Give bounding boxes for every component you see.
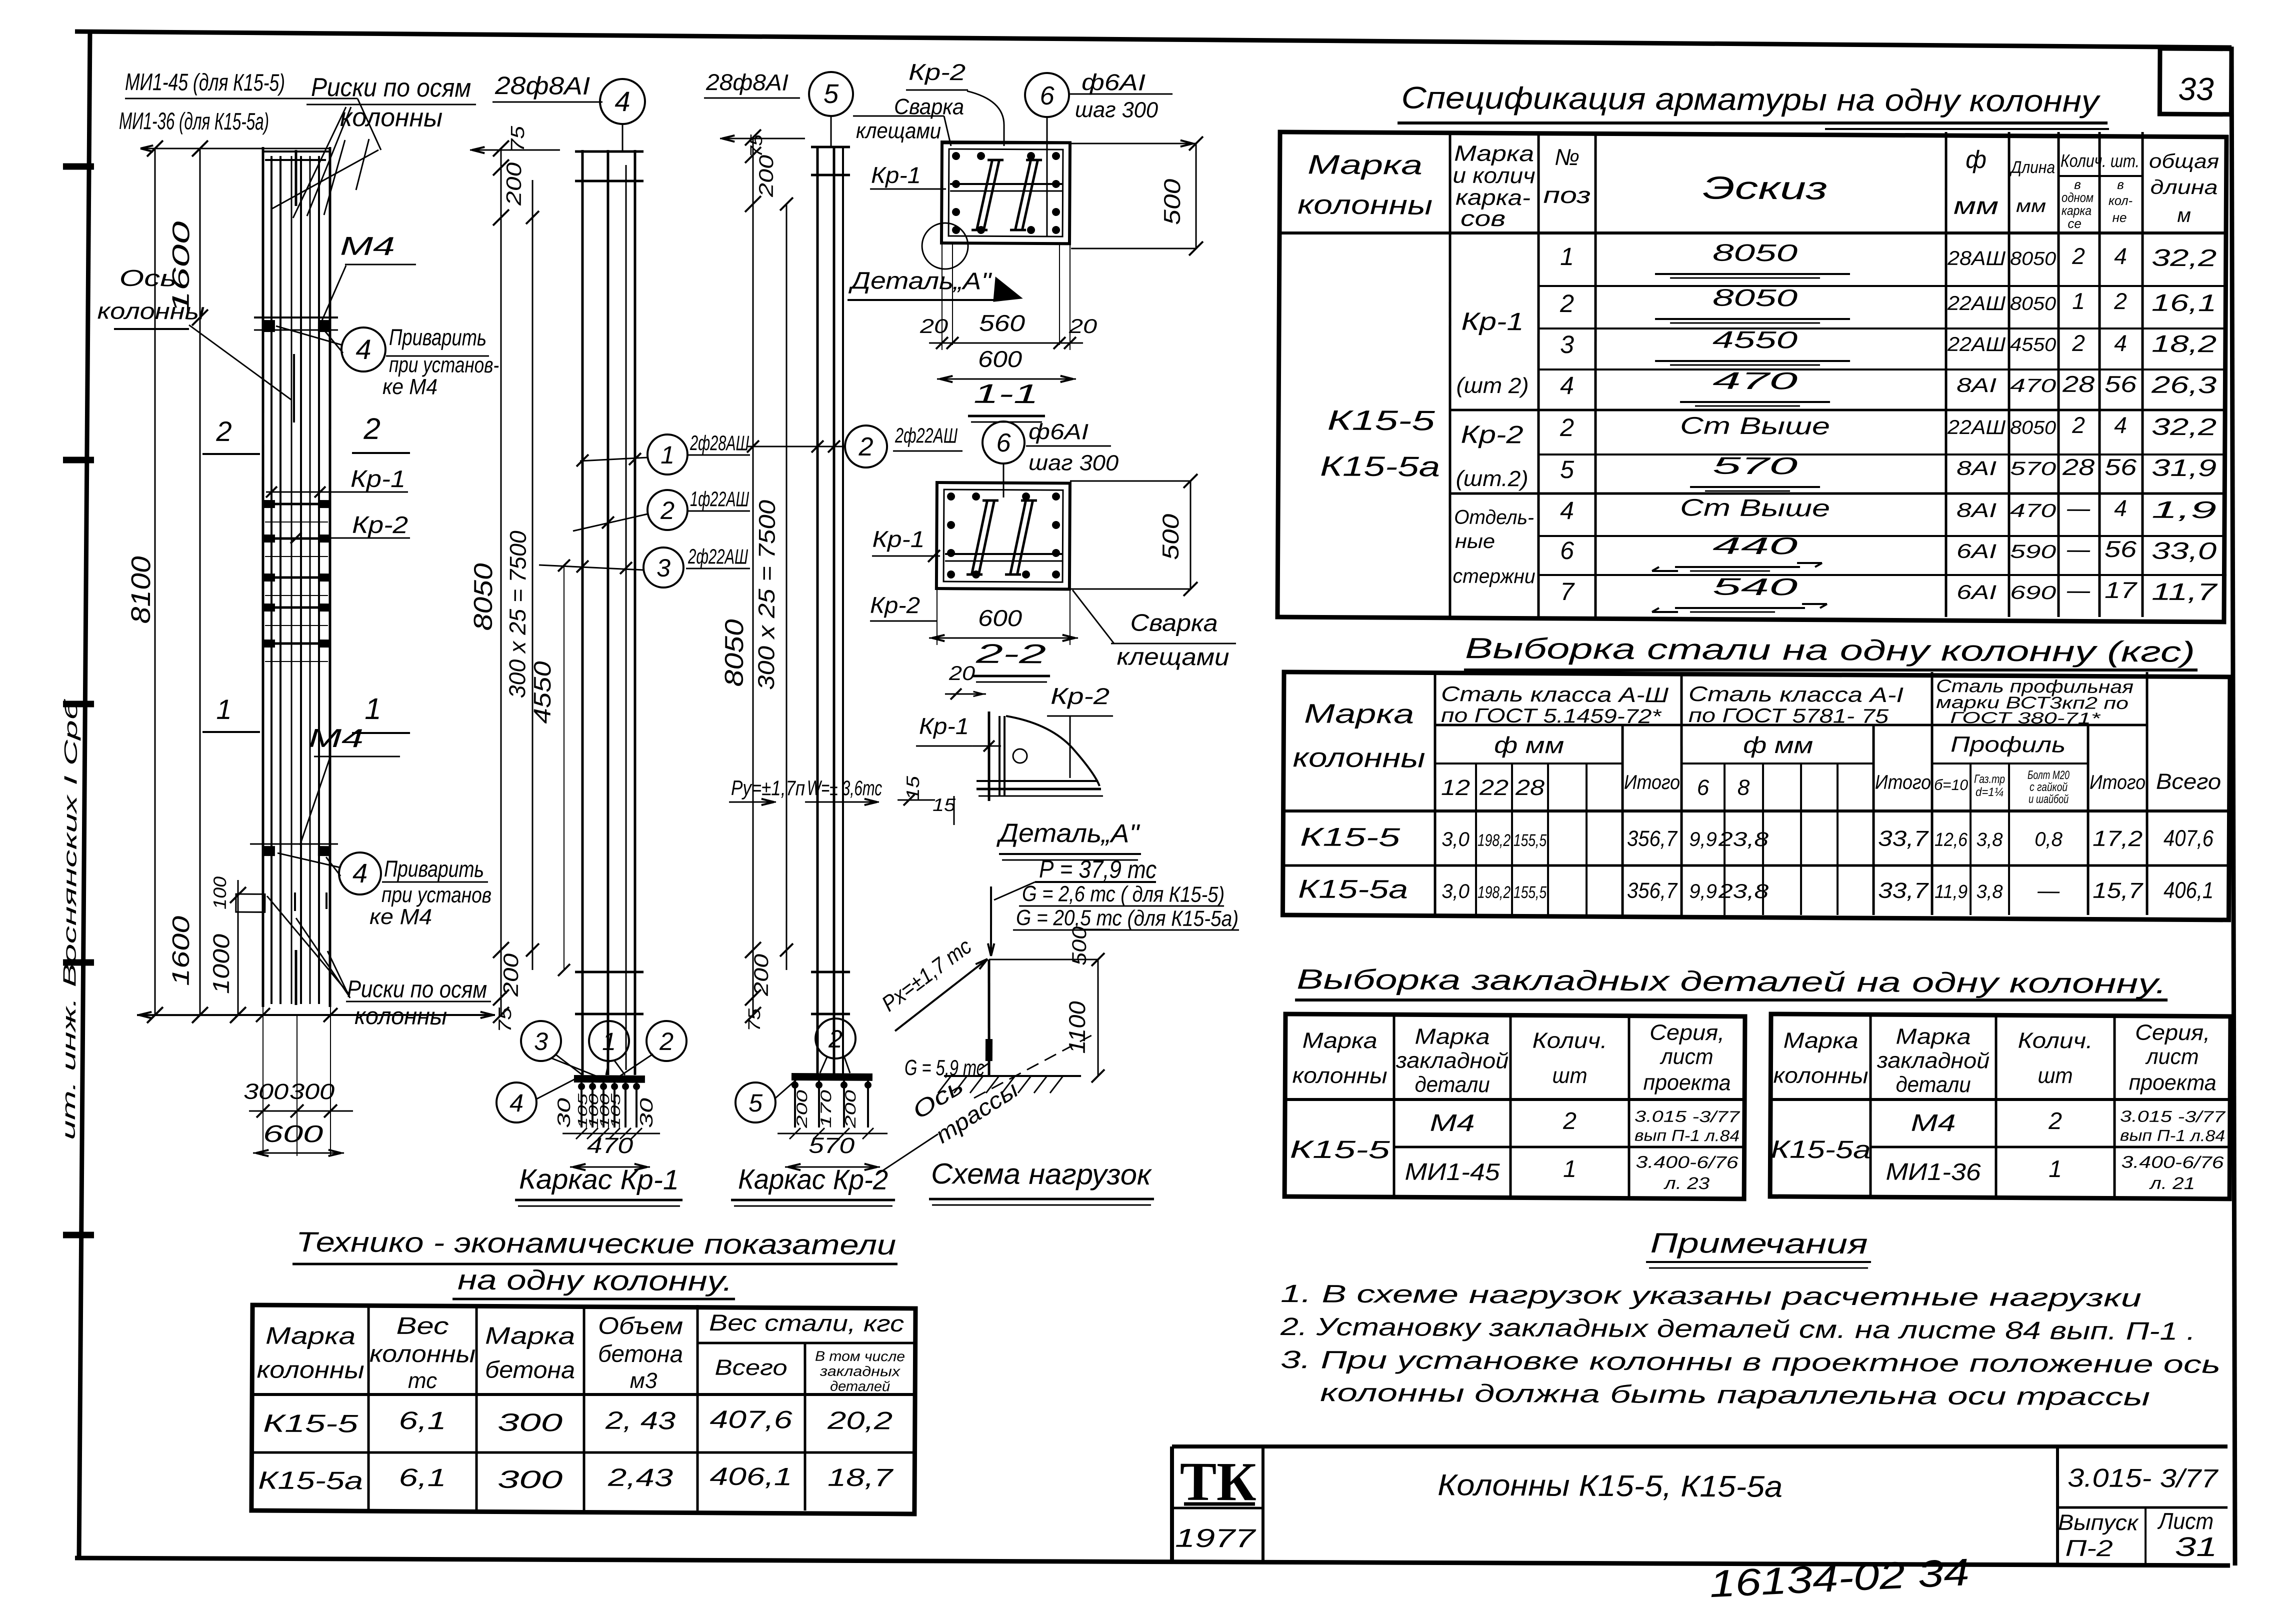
svg-text:356,7: 356,7: [1627, 878, 1678, 903]
svg-text:2: 2: [1559, 413, 1574, 441]
svg-text:300: 300: [243, 1079, 289, 1104]
svg-text:общая: общая: [2149, 150, 2219, 173]
svg-text:мм: мм: [1953, 193, 1998, 219]
svg-text:Выборка стали на одну коло: Выборка стали на одну колонну (кгс): [1465, 632, 2195, 668]
svg-text:1ф22АШ: 1ф22АШ: [690, 487, 749, 511]
svg-text:1: 1: [602, 1027, 616, 1055]
svg-text:закладных: закладных: [819, 1363, 900, 1379]
Kr-2 bottom rungs: [811, 970, 850, 973]
svg-text:Сталь класса А-I: Сталь класса А-I: [1688, 682, 1904, 706]
Kr-1 bottom callout circles: [521, 1021, 561, 1061]
steel table grid: [1282, 672, 2230, 920]
svg-text:П-2: П-2: [2065, 1535, 2113, 1561]
dim line 100: [237, 880, 239, 1015]
svg-text:18,2: 18,2: [2151, 331, 2216, 358]
load P arrow: [990, 886, 991, 956]
svg-text:4: 4: [2114, 243, 2127, 269]
svg-text:28: 28: [2062, 454, 2095, 480]
svg-text:по ГОСТ 5.1459-72*: по ГОСТ 5.1459-72*: [1441, 704, 1662, 727]
dim line 8100: [150, 148, 159, 1015]
callout circle 4 top Kr-1: [600, 79, 645, 124]
svg-text:406,1: 406,1: [709, 1462, 792, 1491]
svg-text:деталей: деталей: [830, 1378, 890, 1394]
svg-text:Спецификация арматуры на одну: Спецификация арматуры на одну колонну: [1401, 80, 2101, 118]
svg-text:клещами: клещами: [1116, 643, 1229, 670]
embed table K15-5: [1284, 1014, 1745, 1199]
svg-text:16134-02 34: 16134-02 34: [1708, 1551, 1970, 1605]
svg-text:2: 2: [2071, 412, 2085, 438]
svg-text:32,2: 32,2: [2151, 414, 2216, 441]
svg-text:2: 2: [215, 415, 231, 447]
svg-text:Примечания: Примечания: [1650, 1227, 1867, 1259]
svg-text:Выборка закладных деталей н: Выборка закладных деталей на одну колонн…: [1296, 963, 2166, 999]
svg-text:К15-5а: К15-5а: [1770, 1135, 1870, 1163]
svg-text:Колич.: Колич.: [2018, 1028, 2093, 1053]
svg-text:—: —: [2066, 536, 2090, 562]
svg-text:8АI: 8АI: [1956, 374, 1996, 396]
svg-text:Итого: Итого: [1624, 771, 1680, 794]
svg-text:в: в: [2117, 177, 2124, 192]
svg-text:4: 4: [509, 1089, 523, 1117]
svg-text:колонны: колонны: [1297, 189, 1432, 220]
svg-text:4: 4: [355, 333, 371, 365]
svg-text:Сталь класса А-Ш: Сталь класса А-Ш: [1441, 682, 1669, 706]
svg-text:Приварить: Приварить: [384, 855, 484, 882]
svg-text:8050: 8050: [1712, 285, 1798, 312]
dims 20 560 20 below 1-1: [941, 243, 942, 350]
svg-text:(шт 2): (шт 2): [1456, 373, 1528, 398]
svg-text:1: 1: [2072, 288, 2085, 314]
svg-text:2: 2: [2048, 1108, 2062, 1134]
svg-text:31: 31: [2175, 1532, 2217, 1562]
svg-text:470: 470: [2010, 375, 2056, 396]
svg-text:Марка: Марка: [265, 1323, 355, 1350]
column base mark: [985, 1039, 992, 1061]
svg-text:22АШ: 22АШ: [1947, 416, 2005, 439]
svg-text:Колич. шт.: Колич. шт.: [2060, 150, 2139, 171]
svg-text:690: 690: [2010, 582, 2056, 603]
svg-text:406,1: 406,1: [2163, 877, 2213, 903]
svg-text:440: 440: [1712, 533, 1798, 560]
svg-text:500: 500: [1157, 513, 1183, 560]
svg-text:200: 200: [755, 155, 777, 197]
svg-text:8АI: 8АI: [1956, 499, 1996, 521]
svg-text:1: 1: [1563, 1156, 1576, 1182]
dim 500 right of 2-2: [1070, 480, 1190, 482]
svg-text:МИ1-45: МИ1-45: [1404, 1159, 1500, 1186]
svg-text:11,9: 11,9: [1934, 881, 1967, 902]
svg-text:колонны: колонны: [340, 103, 442, 132]
svg-text:ке М4: ке М4: [382, 374, 437, 399]
svg-text:560: 560: [979, 310, 1025, 336]
svg-text:6АI: 6АI: [1956, 540, 1996, 562]
svg-text:1600: 1600: [168, 915, 195, 986]
svg-text:Лист: Лист: [2157, 1508, 2213, 1534]
svg-text:Отдель-: Отдель-: [1454, 506, 1534, 529]
svg-text:G = 20,5 тс (для К15-5а): G = 20,5 тс (для К15-5а): [1016, 905, 1238, 931]
svg-text:1100: 1100: [1064, 1001, 1090, 1054]
Kr-1 top dim tail: [470, 149, 560, 150]
embedded plate M4 upper: [254, 317, 338, 318]
svg-text:3: 3: [656, 554, 670, 582]
svg-text:Каркас Кр-1: Каркас Кр-1: [519, 1163, 679, 1195]
svg-text:л. 21: л. 21: [2149, 1174, 2195, 1193]
section 1-1 ties: [976, 159, 992, 231]
svg-text:155,5: 155,5: [1513, 883, 1546, 902]
svg-text:Кр-2: Кр-2: [1460, 420, 1523, 449]
svg-text:Кр-1: Кр-1: [350, 466, 405, 493]
scheme frame: [989, 959, 1098, 960]
svg-text:407,6: 407,6: [2163, 825, 2214, 851]
svg-text:2: 2: [1559, 289, 1574, 317]
svg-text:1. В схеме нагрузок указа: 1. В схеме нагрузок указаны расчетные на…: [1280, 1279, 2141, 1312]
svg-text:Кр-1: Кр-1: [919, 713, 969, 739]
column K15-5 elevation outline: [258, 147, 267, 1007]
svg-text:200: 200: [794, 1089, 810, 1128]
svg-text:МИ1-45 (для К15-5): МИ1-45 (для К15-5): [125, 69, 285, 96]
svg-text:470: 470: [2010, 500, 2056, 521]
svg-text:3: 3: [1560, 330, 1574, 358]
svg-text:22АШ: 22АШ: [1947, 292, 2005, 315]
svg-text:3.400-6/76: 3.400-6/76: [2121, 1152, 2224, 1172]
sheet number box 33: [2159, 48, 2231, 114]
svg-text:1: 1: [2048, 1156, 2062, 1182]
column axis mark top: [295, 150, 296, 206]
Kr-2 cage bars: [812, 146, 822, 1074]
svg-text:клещами: клещами: [856, 118, 941, 143]
svg-text:закладной: закладной: [1395, 1048, 1508, 1073]
svg-text:К15-5: К15-5: [263, 1409, 358, 1438]
svg-text:356,7: 356,7: [1627, 826, 1678, 851]
svg-text:Марка: Марка: [485, 1323, 575, 1350]
svg-text:не: не: [2112, 210, 2127, 225]
svg-text:Деталь„А": Деталь„А": [848, 267, 992, 295]
Kr-2 dim line 8050: [748, 137, 757, 1015]
svg-text:Сварка: Сварка: [1130, 610, 1217, 637]
svg-text:75: 75: [745, 1008, 764, 1031]
svg-text:се: се: [2067, 216, 2081, 231]
svg-text:0,8: 0,8: [2034, 828, 2063, 850]
svg-text:Схема нагрузок: Схема нагрузок: [931, 1157, 1152, 1191]
axis dash line: [974, 1032, 1096, 1099]
svg-text:1: 1: [1560, 242, 1574, 270]
svg-text:М4: М4: [308, 724, 363, 753]
svg-text:8050: 8050: [2010, 417, 2056, 438]
svg-text:3. При установке колонны: 3. При установке колонны в проектное пол…: [1280, 1345, 2220, 1378]
detail A base plates: [976, 780, 1098, 782]
svg-text:540: 540: [1712, 574, 1798, 601]
svg-text:56: 56: [2104, 371, 2137, 397]
svg-text:2: 2: [659, 1027, 673, 1055]
callout circle 6 of 2-2: [982, 421, 1024, 463]
svg-text:колонны: колонны: [354, 1003, 447, 1030]
svg-text:3.400-6/76: 3.400-6/76: [1635, 1152, 1738, 1172]
svg-text:d=1¼: d=1¼: [1975, 785, 2003, 799]
svg-text:8050: 8050: [1712, 240, 1798, 267]
svg-text:М4: М4: [340, 232, 395, 261]
svg-text:33: 33: [2178, 71, 2214, 107]
svg-text:и колич: и колич: [1452, 163, 1535, 188]
svg-text:Колич.: Колич.: [1532, 1028, 1607, 1053]
svg-text:Профиль: Профиль: [1950, 732, 2065, 757]
svg-text:шаг 300: шаг 300: [1028, 450, 1119, 475]
svg-text:8100: 8100: [126, 556, 156, 623]
svg-text:2: 2: [660, 496, 674, 524]
svg-text:Ру=±1,7п: Ру=±1,7п: [731, 776, 805, 800]
svg-text:6АI: 6АI: [1956, 581, 1996, 603]
svg-text:8050: 8050: [469, 563, 498, 630]
svg-text:2: 2: [2071, 330, 2085, 356]
svg-text:570: 570: [1712, 453, 1798, 480]
svg-text:—: —: [2066, 577, 2090, 603]
svg-text:3.015- 3/77: 3.015- 3/77: [2067, 1463, 2219, 1493]
svg-text:длина: длина: [2150, 176, 2218, 199]
svg-text:№: №: [1554, 144, 1579, 170]
svg-text:17,2: 17,2: [2092, 826, 2142, 851]
svg-text:8АI: 8АI: [1956, 457, 1996, 479]
svg-text:колонны: колонны: [97, 297, 204, 324]
svg-text:22АШ: 22АШ: [1947, 333, 2005, 356]
svg-text:407,6: 407,6: [709, 1405, 792, 1434]
svg-text:590: 590: [2010, 541, 2056, 562]
svg-text:8050: 8050: [2010, 293, 2056, 314]
svg-text:20: 20: [948, 662, 975, 684]
svg-text:Итого: Итого: [1875, 771, 1931, 794]
svg-text:Колонны К15-5, К15-5а: Колонны К15-5, К15-5а: [1437, 1468, 1782, 1503]
ground hatch: [944, 1075, 1081, 1077]
svg-text:по ГОСТ 5781- 75: по ГОСТ 5781- 75: [1688, 704, 1889, 727]
svg-text:18,7: 18,7: [827, 1463, 894, 1492]
svg-text:шаг 300: шаг 300: [1075, 97, 1158, 122]
svg-text:Р = 37,9 тс: Р = 37,9 тс: [1039, 855, 1156, 883]
svg-text:3,0: 3,0: [1441, 828, 1469, 850]
svg-text:8050: 8050: [2010, 248, 2056, 269]
svg-text:Кр-2: Кр-2: [352, 512, 408, 539]
svg-text:ф мм: ф мм: [1743, 732, 1813, 758]
svg-text:6: 6: [996, 428, 1010, 457]
svg-text:Выпуск: Выпуск: [2058, 1510, 2139, 1535]
sheet border frame: [75, 31, 2231, 47]
svg-text:ке М4: ке М4: [369, 904, 432, 929]
embedded plate M4 lower: [250, 843, 338, 844]
svg-text:56: 56: [2104, 454, 2137, 480]
svg-text:6: 6: [1560, 536, 1574, 564]
column axis mark middle: [293, 354, 294, 422]
svg-text:3.015 -3/77: 3.015 -3/77: [2120, 1107, 2226, 1125]
svg-text:28ф8АI: 28ф8АI: [705, 69, 789, 95]
svg-text:105: 105: [608, 1093, 623, 1128]
svg-text:12,6: 12,6: [1934, 829, 1968, 850]
detail A callout circle: [922, 223, 968, 269]
Kr-1 bar callouts 1 2 3: [647, 434, 687, 474]
svg-text:300: 300: [289, 1079, 335, 1104]
svg-text:колонны должна быть пар: колонны должна быть параллельна оси трас…: [1320, 1378, 2150, 1411]
svg-text:33,0: 33,0: [2151, 538, 2217, 565]
svg-text:20: 20: [1068, 315, 1097, 337]
svg-text:при установ-: при установ-: [389, 352, 499, 377]
svg-text:2ф22АШ: 2ф22АШ: [894, 423, 957, 447]
svg-text:К15-5а: К15-5а: [1320, 450, 1440, 482]
svg-text:5: 5: [748, 1089, 762, 1117]
svg-text:К15-5а: К15-5а: [258, 1466, 363, 1494]
Kr-2 bottom assembly: [791, 1073, 872, 1081]
Kr-1 dim line 8050: [496, 148, 505, 1015]
svg-text:2ф28АШ: 2ф28АШ: [689, 431, 749, 455]
svg-text:шт: шт: [2037, 1063, 2072, 1088]
svg-text:20: 20: [919, 315, 948, 337]
svg-text:Марка: Марка: [1895, 1024, 1970, 1049]
svg-text:—: —: [2037, 878, 2060, 903]
svg-text:вып П-1 л.84: вып П-1 л.84: [1634, 1126, 1739, 1144]
Kr-2 bottom callout circles: [815, 1018, 855, 1058]
svg-text:Марка: Марка: [1454, 141, 1534, 166]
base dim line: [137, 1013, 495, 1017]
svg-text:—: —: [2066, 495, 2090, 521]
svg-text:4: 4: [2114, 412, 2127, 438]
Kr-1 bottom rungs: [575, 971, 643, 972]
svg-text:К15-5а: К15-5а: [1298, 874, 1408, 904]
svg-text:75: 75: [494, 1007, 515, 1032]
svg-text:4: 4: [2114, 495, 2127, 521]
Kr-2 top rungs: [811, 145, 850, 148]
svg-text:300: 300: [497, 1465, 563, 1494]
svg-text:колонны: колонны: [1773, 1063, 1868, 1088]
Kr-1 cage bars: [577, 150, 587, 1075]
svg-text:75: 75: [507, 125, 528, 152]
svg-text:4550: 4550: [529, 661, 556, 724]
svg-text:Риски по осям: Риски по осям: [311, 73, 471, 103]
Kr-1 top rungs: [575, 151, 643, 152]
svg-text:1: 1: [364, 692, 381, 725]
svg-text:4: 4: [352, 858, 367, 888]
svg-text:Кр-2: Кр-2: [1050, 683, 1109, 709]
svg-text:Всего: Всего: [2156, 769, 2221, 794]
svg-text:Итого: Итого: [2089, 771, 2145, 794]
svg-text:Кр-2: Кр-2: [870, 592, 920, 618]
svg-text:ф6АI: ф6АI: [1028, 419, 1088, 444]
svg-text:лист: лист: [1659, 1044, 1713, 1069]
svg-text:Рх=±1,7 тс: Рх=±1,7 тс: [877, 934, 976, 1016]
svg-text:1,9: 1,9: [2151, 497, 2216, 524]
svg-text:К15-5: К15-5: [1300, 822, 1401, 852]
svg-text:Газ.тр: Газ.тр: [1974, 772, 2005, 786]
svg-text:300 х 25 = 7500: 300 х 25 = 7500: [504, 530, 531, 698]
svg-text:кол-: кол-: [2108, 193, 2132, 208]
svg-text:Марка: Марка: [1307, 149, 1422, 180]
tie bands: [264, 503, 329, 504]
svg-text:4: 4: [614, 85, 630, 117]
svg-text:сов: сов: [1460, 206, 1505, 231]
Kr-2 dim line 7500: [782, 204, 790, 970]
svg-text:Марка: Марка: [1304, 698, 1414, 729]
svg-text:Ст Выше: Ст Выше: [1680, 494, 1830, 522]
svg-text:300 х 25 = 7500: 300 х 25 = 7500: [753, 499, 780, 690]
svg-text:Технико - эконамические пок: Технико - эконамические показатели: [296, 1226, 896, 1260]
Kr-1 dim 4550: [562, 565, 566, 970]
svg-text:Кр-2: Кр-2: [908, 59, 965, 85]
svg-text:2, 43: 2, 43: [605, 1406, 676, 1435]
svg-text:бетона: бетона: [598, 1341, 683, 1368]
svg-text:Каркас Кр-2: Каркас Кр-2: [738, 1163, 888, 1195]
svg-text:15: 15: [932, 794, 956, 815]
svg-text:200: 200: [750, 954, 772, 996]
svg-text:ф: ф: [1965, 145, 1986, 173]
callout circle 5 top: [809, 72, 853, 116]
dim 600 below 2-2: [936, 588, 937, 645]
column rebar lines: [267, 156, 276, 1004]
svg-text:28: 28: [2062, 371, 2095, 397]
svg-text:ф мм: ф мм: [1494, 732, 1564, 758]
svg-text:2: 2: [828, 1025, 842, 1053]
svg-text:1977: 1977: [1175, 1524, 1256, 1553]
svg-text:600: 600: [978, 346, 1022, 372]
section 2-2 ties: [971, 499, 987, 575]
svg-text:Ось: Ось: [119, 265, 176, 291]
svg-text:лист: лист: [2145, 1044, 2199, 1069]
svg-text:30: 30: [636, 1098, 656, 1128]
svg-text:проекта: проекта: [1643, 1070, 1731, 1095]
svg-text:Эскиз: Эскиз: [1702, 169, 1827, 206]
svg-text:5: 5: [1560, 455, 1574, 483]
Kr-1 bottom assembly: [574, 1075, 645, 1083]
svg-text:15,7: 15,7: [2092, 878, 2143, 903]
svg-text:17: 17: [2104, 577, 2137, 603]
svg-text:закладной: закладной: [1876, 1048, 1989, 1073]
svg-text:проекта: проекта: [2129, 1070, 2216, 1095]
svg-text:198,2: 198,2: [1477, 883, 1510, 902]
svg-text:570: 570: [808, 1133, 855, 1158]
section 1-1 rebar dots: [952, 152, 960, 160]
svg-text:170: 170: [818, 1089, 834, 1128]
svg-text:МИ1-36 (для К15-5а): МИ1-36 (для К15-5а): [119, 108, 269, 135]
svg-text:155,5: 155,5: [1513, 831, 1546, 850]
svg-text:Кр-1: Кр-1: [1461, 307, 1523, 336]
svg-text:28ф8АI: 28ф8АI: [494, 71, 590, 100]
svg-text:тс: тс: [408, 1368, 437, 1393]
svg-text:600: 600: [978, 605, 1022, 631]
svg-text:2: 2: [2071, 243, 2085, 269]
svg-text:200: 200: [502, 162, 525, 206]
svg-text:3: 3: [534, 1027, 548, 1055]
svg-text:2. Установку закладных детал: 2. Установку закладных деталей см. на ли…: [1280, 1312, 2196, 1345]
svg-text:23,8: 23,8: [1718, 828, 1769, 851]
svg-text:500: 500: [1159, 178, 1185, 225]
svg-text:3.015 -3/77: 3.015 -3/77: [1634, 1107, 1740, 1125]
svg-text:бетона: бетона: [485, 1357, 575, 1384]
detail A column face: [988, 711, 989, 801]
svg-text:4550: 4550: [2010, 334, 2056, 355]
svg-text:колонны: колонны: [369, 1341, 475, 1368]
Kr-2 bar callout 2: [845, 425, 887, 467]
section 2-2 rebar dots: [947, 492, 955, 500]
svg-text:4: 4: [1560, 496, 1574, 524]
svg-text:Объем: Объем: [598, 1313, 683, 1340]
spec table grid: [1277, 132, 2226, 622]
svg-text:стержни: стержни: [1453, 565, 1535, 588]
svg-text:20,2: 20,2: [827, 1406, 893, 1435]
svg-text:26,3: 26,3: [2151, 372, 2217, 399]
svg-text:7: 7: [1560, 577, 1575, 605]
svg-text:600: 600: [263, 1121, 323, 1148]
svg-text:6: 6: [1697, 775, 1709, 800]
svg-text:ф6АI: ф6АI: [1081, 69, 1146, 95]
svg-text:200: 200: [842, 1089, 859, 1128]
section 1-1 outline: [941, 142, 1070, 243]
svg-text:500: 500: [1068, 926, 1090, 965]
svg-text:200: 200: [499, 953, 522, 997]
svg-text:6: 6: [1040, 81, 1054, 110]
svg-text:1000: 1000: [208, 933, 234, 994]
